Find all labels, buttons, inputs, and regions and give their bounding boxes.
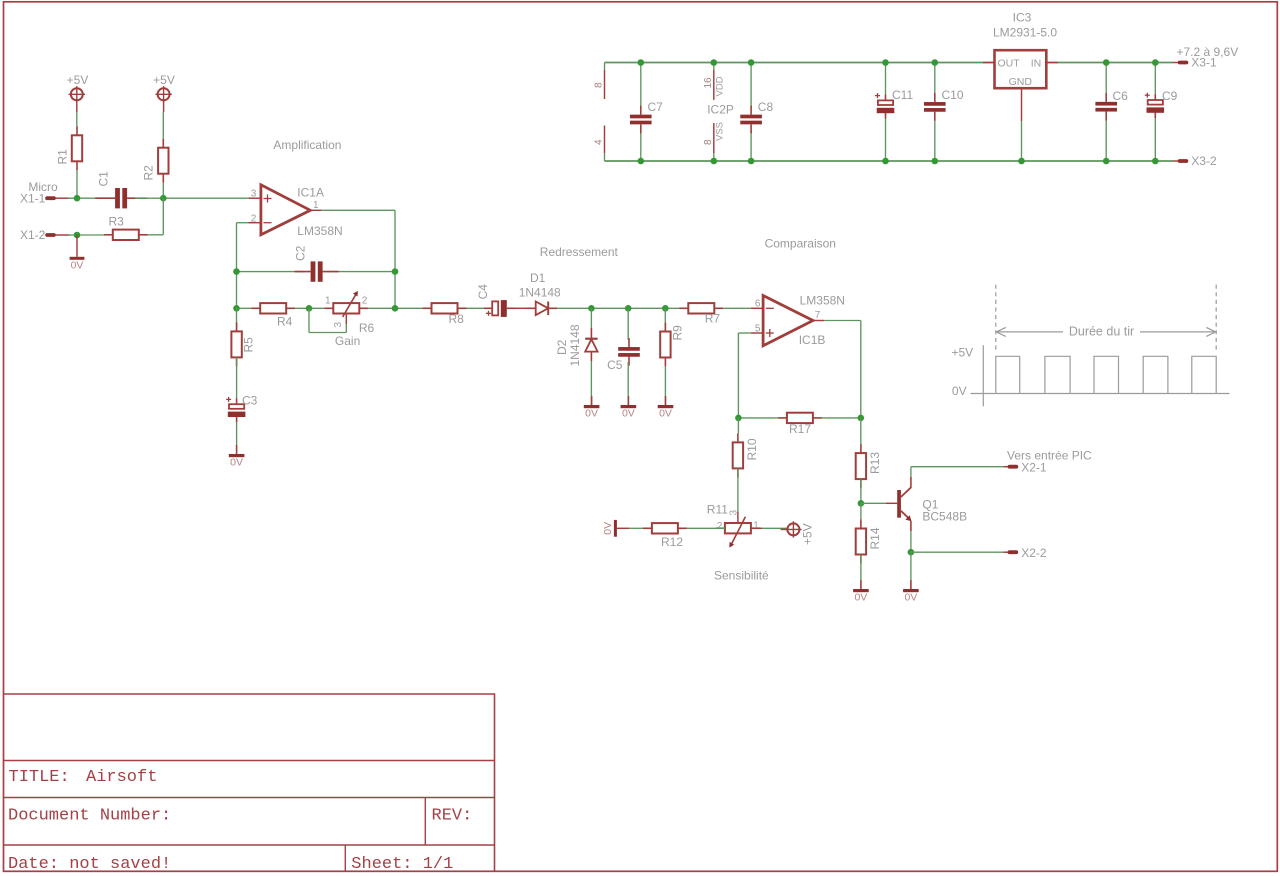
svg-text:4: 4: [594, 139, 605, 145]
wire bottom power rail: [605, 160, 1174, 162]
capacitor C4 (polarized): [484, 307, 492, 309]
wire R12 to R11: [687, 527, 725, 529]
resistor R10: [737, 418, 739, 434]
svg-text:IC1A: IC1A: [297, 186, 324, 200]
svg-text:IC3: IC3: [1013, 11, 1032, 25]
supply +5V (R1): [71, 88, 83, 100]
junction C1 / R2: [160, 195, 167, 202]
svg-text:R8: R8: [449, 312, 465, 326]
svg-text:R9: R9: [670, 325, 684, 341]
ground 0V (R14): [860, 580, 862, 589]
terminal X1-1 Micro: [45, 196, 56, 200]
svg-text:1: 1: [753, 521, 759, 532]
wire X1-1 to C1: [56, 197, 71, 199]
op-amp IC1A: [261, 185, 310, 235]
svg-text:0V: 0V: [854, 592, 867, 604]
capacitor C5: [627, 308, 629, 340]
wire +5V to R1: [76, 101, 78, 112]
junction feedback left: [233, 268, 240, 275]
wire R6 to R8 junction: [368, 307, 422, 309]
dimension arrow Duree du tir: [996, 331, 1063, 333]
svg-text:2: 2: [717, 521, 723, 532]
svg-text:0V: 0V: [230, 457, 243, 469]
svg-text:X1-2: X1-2: [20, 228, 46, 242]
junction feedback right: [392, 268, 399, 275]
svg-text:8: 8: [703, 139, 714, 145]
junction emitter: [908, 549, 915, 556]
junction C7 bottom: [638, 158, 645, 165]
ground 0V (R12 left): [614, 520, 617, 537]
svg-text:Airsoft: Airsoft: [86, 768, 157, 787]
svg-text:TITLE:: TITLE:: [9, 768, 70, 787]
pin 2 lead: [248, 222, 261, 224]
svg-text:0V: 0V: [71, 260, 84, 272]
junction feedback / row: [392, 305, 399, 312]
junction C5: [625, 305, 632, 312]
svg-text:R14: R14: [868, 527, 882, 549]
svg-text:0V: 0V: [952, 384, 967, 398]
junction C9 bottom: [1152, 158, 1159, 165]
IC2P VSS pin 8: [713, 123, 715, 153]
capacitor C7: [640, 63, 642, 109]
svg-text:C3: C3: [242, 393, 258, 407]
transistor Q1 BC548B: [897, 490, 901, 518]
wire ground to R12: [617, 527, 629, 529]
svg-text:X1-1: X1-1: [20, 192, 46, 206]
svg-text:VDD: VDD: [715, 76, 726, 96]
resistor R17: [778, 417, 787, 419]
ground 0V (R9): [665, 396, 667, 405]
svg-text:Gain: Gain: [335, 334, 360, 348]
svg-text:Document Number:: Document Number:: [8, 806, 171, 825]
svg-text:+5V: +5V: [801, 523, 815, 545]
wire C3 to ground: [236, 422, 238, 445]
svg-text:Redressement: Redressement: [540, 245, 619, 259]
svg-text:IC2P: IC2P: [707, 103, 734, 117]
junction X1-2 / ground: [74, 232, 81, 239]
ground 0V (Q1): [910, 580, 912, 589]
svg-text:0V: 0V: [622, 408, 635, 420]
svg-text:LM358N: LM358N: [297, 224, 342, 238]
svg-text:D1: D1: [530, 271, 546, 285]
diode D2 1N4148 (shunt): [590, 308, 592, 328]
junction R4/R6 node: [306, 305, 313, 312]
resistor R5: [236, 308, 238, 331]
svg-text:R3: R3: [109, 215, 125, 229]
svg-text:R4: R4: [277, 314, 293, 328]
wire top power rail: [605, 62, 1174, 64]
resistor R8: [423, 307, 432, 309]
svg-text:C6: C6: [1113, 89, 1129, 103]
svg-text:1N4148: 1N4148: [568, 324, 582, 366]
junction IC2P bottom: [711, 158, 718, 165]
svg-text:LM2931-5.0: LM2931-5.0: [993, 26, 1057, 40]
svg-text:GND: GND: [1009, 76, 1033, 88]
svg-text:0V: 0V: [602, 522, 614, 535]
svg-text:0V: 0V: [904, 592, 917, 604]
svg-text:R7: R7: [705, 312, 721, 326]
svg-text:BC548B: BC548B: [922, 509, 967, 523]
wire C5 to ground: [627, 362, 629, 405]
terminal X3-2: [1173, 160, 1179, 162]
ground 0V (C5): [627, 396, 629, 405]
svg-text:R13: R13: [868, 452, 882, 474]
wire R11 to +5V: [751, 527, 762, 529]
wire R3 to node: [148, 234, 164, 236]
resistor R3: [104, 234, 113, 236]
wire main row amplification: [237, 307, 252, 309]
svg-text:Sheet: 1/1: Sheet: 1/1: [351, 855, 453, 874]
waveform baseline: [971, 393, 1230, 395]
svg-text:IC1B: IC1B: [799, 333, 826, 347]
pin 1 output lead: [310, 209, 321, 211]
svg-text:1: 1: [325, 295, 331, 306]
ground 0V (input): [76, 235, 78, 257]
ground 0V (D2): [591, 396, 593, 405]
wire emitter to X2-2: [910, 531, 912, 552]
junction C7 top: [638, 59, 645, 66]
svg-text:R1: R1: [56, 149, 70, 165]
svg-text:1: 1: [313, 200, 319, 211]
junction C11 bottom: [882, 158, 889, 165]
dashed line right (timing): [1215, 285, 1217, 353]
square wave pulses: [996, 356, 1216, 393]
svg-text:X2-2: X2-2: [1021, 546, 1047, 560]
terminal X1-2: [45, 233, 56, 237]
svg-text:+5V: +5V: [153, 73, 175, 87]
svg-text:Sensibilité: Sensibilité: [714, 568, 769, 582]
IC2P VDD pin 16: [713, 63, 715, 71]
op-amp IC1B: [763, 296, 813, 346]
supply +5V (R11): [781, 528, 788, 530]
potentiometer R6: [324, 307, 333, 309]
dashed line left (timing): [995, 285, 997, 353]
svg-text:R17: R17: [789, 422, 811, 436]
wire R4 to R6: [295, 307, 324, 309]
junction R4 left: [233, 305, 240, 312]
svg-text:Durée du tir: Durée du tir: [1069, 325, 1134, 339]
wire C4 to D1: [515, 307, 527, 309]
waveform axis: [982, 345, 984, 406]
junction R17 right: [858, 415, 865, 422]
svg-text:1N4148: 1N4148: [519, 285, 561, 299]
wire C1 to op-amp input: [135, 197, 248, 199]
svg-text:C2: C2: [294, 245, 308, 261]
svg-text:C10: C10: [942, 88, 964, 102]
diode D1 1N4148: [527, 307, 536, 309]
potentiometer R11 Sensibilite: [737, 512, 739, 523]
wire R7 to IC1B pin6: [723, 307, 751, 309]
title block divider 2: [4, 797, 495, 799]
resistor R7: [679, 307, 688, 309]
svg-text:D2: D2: [555, 339, 569, 355]
junction base node: [858, 500, 865, 507]
pin 5 lead: [751, 332, 763, 334]
title block frame: [4, 694, 495, 872]
svg-text:Amplification: Amplification: [273, 138, 341, 152]
capacitor C1: [95, 197, 115, 199]
svg-text:C9: C9: [1162, 89, 1178, 103]
svg-text:8: 8: [594, 82, 605, 88]
wire pin5 to feedback: [738, 332, 751, 334]
svg-text:2: 2: [362, 295, 368, 306]
terminal X2-2: [1008, 550, 1019, 554]
wire D2 to ground: [590, 361, 592, 405]
svg-text:Vers entrée PIC: Vers entrée PIC: [1007, 448, 1092, 462]
svg-text:LM358N: LM358N: [800, 294, 845, 308]
capacitor C9 (polarized): [1154, 63, 1156, 96]
svg-text:Date: not saved!: Date: not saved!: [8, 855, 171, 874]
junction IC2P top: [711, 59, 718, 66]
capacitor C3 (polarized): [236, 398, 238, 404]
svg-text:X3-2: X3-2: [1191, 154, 1217, 168]
svg-text:C7: C7: [648, 100, 664, 114]
svg-text:R6: R6: [359, 321, 375, 335]
supply +5V (R2): [158, 88, 170, 100]
svg-text:C1: C1: [97, 171, 111, 187]
svg-text:C4: C4: [476, 284, 490, 300]
svg-text:+5V: +5V: [952, 345, 974, 359]
junction C8 bottom: [748, 158, 755, 165]
wire R9 to ground: [664, 366, 666, 405]
svg-text:R10: R10: [745, 438, 759, 460]
wire output to feedback: [322, 209, 395, 211]
junction C10 bottom: [932, 158, 939, 165]
ground 0V (C3): [236, 445, 238, 454]
title block divider 1: [4, 760, 495, 762]
svg-text:Comparaison: Comparaison: [765, 236, 836, 250]
voltage regulator IC3 LM2931-5.0: [983, 62, 995, 64]
resistor R12: [643, 527, 652, 529]
junction C11 top: [882, 59, 889, 66]
wire base node to Q1: [861, 502, 886, 504]
svg-text:+7.2 à 9,6V: +7.2 à 9,6V: [1177, 45, 1239, 59]
wire R10 to R11 wiper: [737, 468, 739, 512]
svg-text:3: 3: [729, 510, 740, 516]
wire R13 to base node: [860, 479, 862, 503]
wire D1 to comparator: [557, 307, 682, 309]
svg-text:0V: 0V: [585, 408, 598, 420]
junction C8 top: [748, 59, 755, 66]
wire collector to X2-1: [910, 467, 912, 477]
svg-text:0V: 0V: [659, 408, 672, 420]
wire R14 to ground: [860, 555, 862, 581]
svg-text:VSS: VSS: [715, 122, 726, 141]
svg-text:REV:: REV:: [432, 806, 473, 825]
junction C10 top: [932, 59, 939, 66]
svg-text:R5: R5: [242, 337, 256, 353]
svg-text:R12: R12: [661, 535, 683, 549]
resistor R1: [76, 126, 78, 135]
svg-text:16: 16: [703, 77, 714, 89]
R6 wiper return wire: [345, 314, 347, 325]
terminal X2-1: [1008, 465, 1019, 469]
junction R9: [662, 305, 669, 312]
svg-text:3: 3: [333, 322, 344, 328]
capacitor C2: [295, 271, 311, 273]
junction C6 bottom: [1103, 158, 1110, 165]
svg-text:C11: C11: [892, 88, 913, 102]
wire output down to R17 node: [824, 320, 861, 322]
junction X1-1 / R1: [74, 195, 81, 202]
capacitor C6: [1105, 63, 1107, 96]
svg-text:R11: R11: [707, 503, 728, 517]
resistor R2: [162, 139, 164, 148]
resistor R4: [251, 307, 260, 309]
wire R1 to node: [76, 170, 78, 198]
wire R17 row: [738, 417, 778, 419]
capacitor C11 (polarized): [885, 63, 887, 96]
junction R17 left: [735, 415, 742, 422]
Sheet cell divider: [344, 845, 346, 872]
REV cell divider: [424, 798, 426, 846]
svg-text:C8: C8: [758, 100, 774, 114]
pin 6 lead: [751, 307, 763, 309]
wire feedback row: [237, 271, 305, 273]
junction C6 top: [1103, 59, 1110, 66]
pin 3 lead: [248, 197, 261, 199]
svg-text:OUT: OUT: [998, 57, 1021, 69]
svg-text:+5V: +5V: [67, 73, 89, 87]
pin 7 output lead: [813, 320, 824, 322]
title block divider 3: [4, 844, 495, 846]
IC2P supply pin 4 (left): [604, 126, 606, 154]
wire +5V to R2: [163, 101, 165, 112]
resistor R14: [860, 503, 862, 519]
svg-text:R2: R2: [142, 165, 156, 181]
wire emitter to ground: [910, 552, 912, 580]
wire pin2 to feedback node: [237, 222, 249, 224]
IC2P supply pin 8 (left): [604, 63, 606, 71]
junction C9 top: [1152, 59, 1159, 66]
resistor R9: [664, 308, 666, 332]
capacitor C8: [750, 63, 752, 109]
wire IC3 GND to bottom rail: [1021, 88, 1023, 121]
wire R2 to node: [162, 183, 164, 199]
junction D2: [588, 305, 595, 312]
svg-text:X2-1: X2-1: [1021, 460, 1047, 474]
junction IC3 GND bottom: [1018, 158, 1025, 165]
wire X1-2 to R3: [56, 234, 71, 236]
svg-text:C5: C5: [607, 358, 623, 372]
capacitor C10: [934, 63, 936, 96]
terminal X3-1: [1173, 62, 1179, 64]
wire R8 to C4: [467, 307, 485, 309]
svg-text:IN: IN: [1031, 57, 1042, 69]
resistor R13: [860, 418, 862, 444]
svg-text:7: 7: [815, 310, 821, 321]
wire R5 to C3: [236, 357, 238, 399]
